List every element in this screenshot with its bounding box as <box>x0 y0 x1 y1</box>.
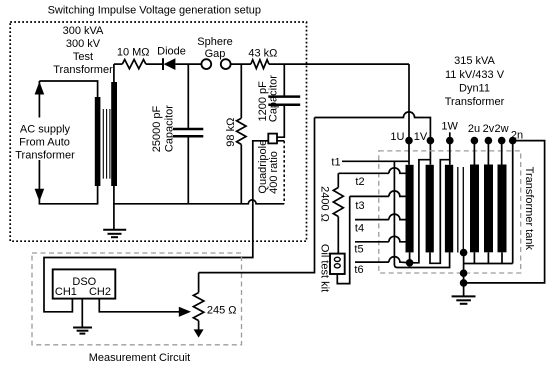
svg-text:2400 Ω: 2400 Ω <box>319 186 331 222</box>
svg-text:2v: 2v <box>483 123 495 135</box>
svg-text:t1: t1 <box>331 156 340 168</box>
svg-text:Dyn11: Dyn11 <box>459 82 490 94</box>
svg-text:300 kV: 300 kV <box>66 38 101 50</box>
svg-text:98 kΩ: 98 kΩ <box>225 118 237 147</box>
svg-text:315 kVA: 315 kVA <box>454 55 495 67</box>
svg-text:2w: 2w <box>494 123 508 135</box>
svg-text:11 kV/433 V: 11 kV/433 V <box>445 69 505 81</box>
svg-text:400 ratio: 400 ratio <box>268 151 280 194</box>
svg-text:Diode: Diode <box>157 46 186 58</box>
svg-text:Transformer tank: Transformer tank <box>523 167 535 251</box>
svg-text:1V: 1V <box>414 131 428 143</box>
svg-text:43 kΩ: 43 kΩ <box>248 48 277 60</box>
svg-text:1W: 1W <box>441 121 458 133</box>
svg-text:Sphere: Sphere <box>197 36 232 48</box>
svg-text:Test: Test <box>73 51 93 63</box>
svg-text:AC supply: AC supply <box>20 124 71 136</box>
svg-text:Transformer: Transformer <box>15 150 75 162</box>
svg-text:245 Ω: 245 Ω <box>207 305 237 317</box>
svg-text:CH1: CH1 <box>55 286 77 298</box>
svg-text:t4: t4 <box>355 223 364 235</box>
svg-text:CH2: CH2 <box>89 286 111 298</box>
svg-text:Gap: Gap <box>205 48 226 60</box>
svg-text:Transformer: Transformer <box>445 96 505 108</box>
svg-text:300 kVA: 300 kVA <box>63 25 104 37</box>
svg-text:t2: t2 <box>355 176 364 188</box>
svg-text:1U: 1U <box>390 131 404 143</box>
svg-text:10 MΩ: 10 MΩ <box>117 47 150 59</box>
svg-text:t6: t6 <box>354 264 363 276</box>
svg-text:Switching Impulse Voltage gene: Switching Impulse Voltage generation set… <box>48 5 261 17</box>
svg-text:Measurement Circuit: Measurement Circuit <box>89 352 190 364</box>
svg-text:t5: t5 <box>354 244 363 256</box>
svg-text:t3: t3 <box>355 200 364 212</box>
svg-text:Transformer: Transformer <box>53 64 113 76</box>
svg-text:Capacitor: Capacitor <box>164 105 176 152</box>
svg-text:From Auto: From Auto <box>19 137 70 149</box>
svg-text:Oil test kit: Oil test kit <box>319 244 331 292</box>
svg-text:2n: 2n <box>511 130 523 142</box>
svg-text:Capacitor: Capacitor <box>268 75 280 122</box>
svg-text:2u: 2u <box>468 123 480 135</box>
svg-text:25000 pF: 25000 pF <box>151 105 163 152</box>
